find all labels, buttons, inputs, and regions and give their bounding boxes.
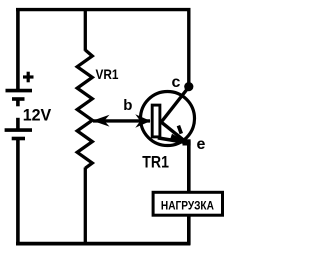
transistor TR1 base bar xyxy=(152,105,160,137)
wire: potentiometer top lead xyxy=(84,8,87,51)
battery B1 cell2 positive plate xyxy=(5,128,32,132)
potentiometer VR1 zigzag body xyxy=(77,50,92,168)
wire: battery cell1 stub xyxy=(16,99,20,106)
battery B1 cell1 negative plate xyxy=(12,97,25,101)
wire: top rail xyxy=(16,8,190,11)
wire: right rail upper segment (top rail to collector node) xyxy=(187,8,190,90)
svg-text:c: c xyxy=(172,74,181,91)
battery B1 plus sign xyxy=(23,72,34,83)
svg-text:b: b xyxy=(123,97,132,114)
wire: potentiometer bottom lead xyxy=(84,168,87,244)
wire: battery cell2 stub xyxy=(16,118,20,130)
emitter arrowhead barb upper xyxy=(178,126,181,134)
transistor TR1 collector lead xyxy=(161,87,189,123)
load box (НАГРУЗКА) xyxy=(153,192,222,215)
svg-text:VR1: VR1 xyxy=(96,66,119,82)
node: collector junction dot xyxy=(184,82,193,91)
wire: wiper to base xyxy=(93,119,150,122)
node: emitter junction nub xyxy=(183,139,191,145)
wiper arrowhead (points left into VR1) xyxy=(92,115,109,127)
wire: left rail lower segment xyxy=(16,139,20,245)
transistor TR1 body circle xyxy=(141,92,195,146)
emitter arrowhead fill wedge xyxy=(170,134,187,142)
emitter arrowhead barb lower xyxy=(158,138,186,143)
svg-text:12V: 12V xyxy=(23,105,52,124)
svg-text:e: e xyxy=(197,136,206,153)
wire: left rail upper segment xyxy=(16,8,20,90)
base arrowhead (points right into bar) xyxy=(135,114,150,128)
transistor TR1 emitter lead xyxy=(161,122,188,144)
battery B1 cell2 negative plate xyxy=(12,137,25,141)
wire: emitter to load box xyxy=(187,141,191,194)
wire: load box to bottom rail xyxy=(187,215,191,245)
wire: bottom rail xyxy=(16,242,190,246)
svg-text:TR1: TR1 xyxy=(142,153,169,171)
svg-text:НАГРУЗКА: НАГРУЗКА xyxy=(161,199,214,213)
battery B1 cell1 positive plate xyxy=(6,89,33,93)
